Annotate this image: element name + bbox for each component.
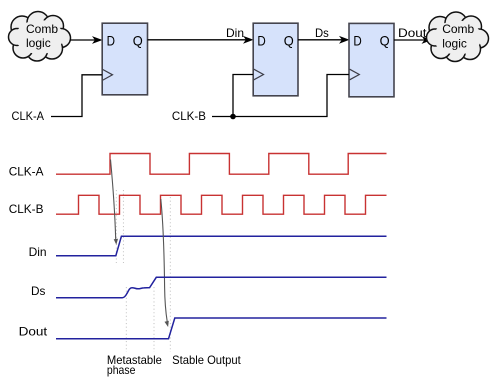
wire junction to U3 clock [233, 75, 349, 117]
svg-text:D: D [257, 32, 265, 48]
waveform CLK-A [56, 154, 387, 175]
wire junction to U2 clock [233, 75, 253, 117]
wire FF1.Q to FF2.D [148, 39, 252, 41]
dotted line metastable phase start [125, 287, 127, 352]
svg-text:CLK-A: CLK-A [9, 165, 44, 179]
cloud: left Comb logic [9, 12, 71, 62]
svg-text:Stable Output: Stable Output [172, 353, 241, 367]
dotted line at Din change window end [122, 190, 124, 263]
waveform CLK-B [56, 195, 387, 214]
cloud: right Comb logic [427, 12, 489, 62]
wire CLK-B to junction [212, 116, 233, 118]
svg-text:Q: Q [133, 32, 143, 48]
waveform Dout [56, 318, 387, 339]
svg-text:CLK-A: CLK-A [12, 109, 45, 123]
flip-flop U2 [253, 23, 298, 96]
svg-text:D: D [107, 32, 115, 48]
dotted line at Din change window start [115, 190, 117, 263]
svg-text:Q: Q [284, 32, 294, 48]
dotted line metastable phase end [153, 287, 155, 352]
svg-text:Ds: Ds [31, 284, 45, 298]
waveform Din [56, 236, 387, 256]
svg-text:CLK-B: CLK-B [9, 202, 44, 216]
svg-text:logic: logic [26, 36, 51, 50]
svg-text:phase: phase [107, 363, 136, 377]
svg-text:Comb: Comb [442, 22, 474, 36]
svg-text:Q: Q [380, 33, 390, 49]
clock pin U3 [350, 69, 360, 80]
svg-text:Dout: Dout [398, 26, 427, 40]
svg-text:logic: logic [442, 37, 467, 51]
waveform Ds (metastable) [56, 277, 387, 298]
svg-text:CLK-B: CLK-B [172, 109, 206, 123]
flip-flop U3 [349, 23, 394, 96]
wire cloud1 to FF1 D with arrow [70, 39, 101, 41]
clock pin U2 [254, 69, 264, 80]
causality arrow CLK-B edge to Dout [161, 199, 167, 322]
svg-text:Din: Din [226, 26, 244, 40]
causality arrow CLK-A edge to Din [111, 160, 116, 240]
svg-text:Ds: Ds [315, 26, 329, 40]
flip-flop U1 [102, 23, 147, 95]
wire FF3.Q to cloud2 [394, 39, 429, 41]
wire CLK-A to U1 clock [51, 75, 102, 117]
svg-text:Comb: Comb [26, 22, 58, 36]
wire FF2.Q to FF3.D [298, 39, 348, 41]
clock pin U1 [103, 70, 113, 81]
svg-text:D: D [353, 33, 361, 49]
dotted line stable output start [169, 197, 171, 352]
dotted marker lines [116, 190, 170, 352]
svg-text:Dout: Dout [19, 324, 48, 338]
junction [230, 114, 236, 120]
svg-text:Din: Din [29, 245, 47, 259]
